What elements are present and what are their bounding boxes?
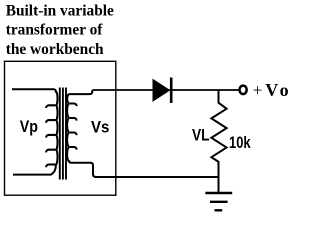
svg-text:VL: VL — [192, 127, 210, 145]
resistor VL zigzag — [211, 90, 226, 193]
diode D1 triangle — [153, 80, 170, 102]
diode cathode bar — [170, 78, 173, 104]
svg-text:transformer of: transformer of — [6, 22, 104, 39]
wire bottom return to ground node — [95, 176, 219, 178]
primary winding Vp — [12, 89, 58, 174]
ground — [205, 193, 232, 210]
svg-text:V: V — [265, 80, 278, 100]
secondary winding Vs — [67, 90, 96, 177]
workbench box — [5, 61, 116, 195]
svg-text:+: + — [253, 80, 263, 99]
output terminal circle — [240, 86, 247, 94]
svg-text:Vs: Vs — [91, 119, 109, 137]
title text — [6, 2, 114, 58]
svg-text:Vp: Vp — [20, 118, 38, 136]
label + Vo — [253, 80, 289, 100]
svg-text:the workbench: the workbench — [6, 41, 104, 58]
svg-text:10k: 10k — [229, 134, 251, 152]
svg-text:o: o — [280, 80, 289, 100]
label Vp — [20, 118, 251, 152]
svg-text:Built-in variable: Built-in variable — [6, 2, 114, 19]
secondary turn stubs — [69, 104, 76, 150]
transformer core — [59, 88, 61, 180]
wire to diode and output — [93, 89, 239, 91]
primary turn stubs — [46, 105, 56, 167]
